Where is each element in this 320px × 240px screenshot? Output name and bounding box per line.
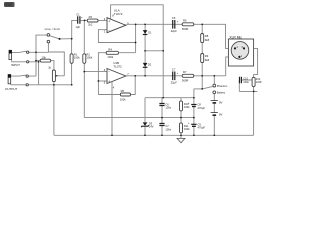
wire C1 left elbow: [72, 20, 77, 38]
wire right riser: [253, 91, 255, 135]
resistor 10k: [40, 56, 51, 63]
svg-text:470µF: 470µF: [198, 126, 206, 130]
wire switch common row: [194, 88, 202, 90]
wire phantom drop: [213, 76, 215, 84]
resistor R6: [182, 18, 194, 31]
op-amp U1B: [104, 61, 130, 89]
svg-text:−: −: [108, 28, 110, 32]
wire R11 column: [180, 118, 182, 136]
wire U1B pin4 stub: [111, 82, 113, 136]
svg-text:Battery: Battery: [217, 91, 226, 95]
svg-text:10k: 10k: [42, 56, 47, 60]
svg-text:+: +: [177, 71, 179, 75]
svg-text:+: +: [108, 79, 110, 83]
svg-text:D1: D1: [148, 31, 152, 35]
wire U1B minus input: [98, 80, 107, 82]
wire R1 column: [71, 39, 73, 85]
svg-text:2k2: 2k2: [88, 22, 93, 26]
wire U1B plus input: [84, 71, 107, 73]
svg-text:ESP: ESP: [6, 3, 12, 7]
wire S1 select chain: [48, 43, 64, 76]
wire R10 column: [180, 98, 182, 118]
svg-text:Phantom: Phantom: [217, 84, 227, 88]
wire input sleeve row: [12, 61, 39, 63]
wire C10 elbow: [239, 80, 252, 91]
svg-text:24V: 24V: [149, 125, 154, 129]
svg-text:OUTPUT: OUTPUT: [5, 87, 18, 91]
svg-text:Line / Instr: Line / Instr: [45, 27, 60, 31]
svg-text:C5: C5: [172, 16, 176, 20]
capacitor C7b: [159, 124, 171, 132]
svg-text:9V: 9V: [219, 100, 223, 104]
svg-text:+: +: [108, 19, 110, 23]
svg-text:TL072: TL072: [114, 12, 123, 16]
input jack: [9, 50, 20, 67]
wire C8b column: [193, 118, 195, 136]
wire clamp row: [145, 50, 163, 52]
wire top supply loop: [111, 5, 164, 98]
svg-text:560R: 560R: [182, 79, 188, 83]
resistor R5: [120, 89, 131, 101]
svg-text:9V: 9V: [219, 112, 223, 116]
wire output sleeve row: [11, 84, 26, 86]
switch S1: [47, 34, 50, 37]
capacitor C10: [240, 77, 250, 84]
wire output tip row: [11, 74, 36, 77]
wire hot output row: [126, 24, 235, 48]
wire V+ rail: [145, 97, 194, 99]
svg-text:100n: 100n: [165, 106, 171, 110]
resistor R4: [106, 47, 135, 58]
svg-text:470µF: 470µF: [198, 106, 206, 110]
wire xlr ground row: [239, 90, 257, 92]
wire input tip row: [12, 51, 49, 52]
wire C7b column: [161, 118, 163, 136]
svg-text:100k: 100k: [184, 127, 190, 131]
svg-text:D2: D2: [148, 63, 152, 67]
capacitor C1: [75, 12, 83, 29]
wire zener column: [144, 98, 146, 136]
svg-text:100k: 100k: [120, 97, 126, 101]
svg-text:100k: 100k: [74, 56, 80, 60]
pot 1k: [48, 66, 58, 82]
wire ground symbol stub: [180, 135, 182, 138]
wire R3 attenuator: [36, 61, 54, 70]
resistor R11: [180, 123, 191, 133]
capacitor C5: [171, 16, 179, 33]
svg-text:100k: 100k: [184, 105, 190, 109]
resistor R3: [87, 15, 98, 26]
svg-text:120R: 120R: [256, 81, 262, 84]
wire sleeve bus: [38, 62, 40, 85]
svg-text:R4: R4: [108, 47, 112, 51]
svg-text:+: +: [177, 19, 179, 23]
XLR connector: [228, 35, 253, 66]
resistor R12: [252, 77, 262, 86]
resistor R8: [201, 34, 210, 43]
wire U1A feedback: [135, 24, 137, 52]
svg-text:22µF: 22µF: [171, 81, 178, 85]
wire phantom lever: [202, 86, 213, 89]
wire pin1 chain: [226, 57, 240, 76]
jack switch contacts: [27, 51, 29, 53]
svg-text:1µF: 1µF: [75, 25, 80, 29]
wire C8a column: [193, 89, 195, 118]
svg-text:100n: 100n: [243, 80, 249, 84]
wire cold output row: [126, 75, 226, 77]
svg-text:INPUT: INPUT: [11, 63, 20, 67]
svg-text:100k: 100k: [107, 55, 113, 59]
wire pot bottom / ground row: [28, 82, 71, 136]
capacitor C9: [188, 121, 205, 130]
zener D3: [141, 122, 153, 129]
wire battery column: [213, 94, 215, 136]
svg-text:R8: R8: [205, 34, 209, 38]
svg-text:560R: 560R: [182, 27, 188, 31]
svg-text:6k8: 6k8: [205, 58, 210, 62]
wire R5 row: [98, 94, 120, 96]
op-amp U1A: [104, 9, 130, 34]
wire S1 lever: [50, 36, 60, 39]
resistor R10: [180, 101, 191, 111]
svg-text:R6: R6: [183, 18, 187, 22]
svg-text:+: +: [81, 16, 83, 20]
svg-text:−: −: [108, 70, 110, 74]
svg-text:TL072: TL072: [113, 65, 122, 69]
resistor R7: [182, 70, 194, 83]
svg-text:C7: C7: [172, 68, 176, 72]
wire bias rail: [84, 117, 194, 119]
battery B1: [211, 100, 223, 104]
wire C6 column: [161, 98, 163, 118]
capacitor C6: [159, 102, 171, 109]
svg-text:R9: R9: [205, 54, 209, 58]
resistor R1: [70, 52, 80, 63]
resistor R9: [201, 54, 210, 63]
wire U1A plus input: [80, 19, 107, 21]
wire pin3 chain: [244, 48, 258, 91]
badge: [4, 2, 15, 7]
wire R2 column: [83, 20, 85, 117]
wire tip bus: [36, 35, 47, 76]
diode D2: [143, 63, 152, 68]
switch phantom battery: [213, 84, 227, 95]
wire clamp column: [144, 24, 146, 76]
diode D1: [143, 30, 152, 34]
wire R8 R9 column: [201, 24, 203, 89]
svg-text:100k: 100k: [86, 56, 92, 60]
ground: [177, 138, 185, 142]
svg-text:R7: R7: [183, 70, 187, 74]
svg-text:22µF: 22µF: [171, 29, 178, 33]
wire bottom rail: [54, 134, 254, 136]
capacitor C7: [171, 68, 179, 85]
svg-text:C1: C1: [76, 12, 80, 16]
output jack: [5, 75, 18, 92]
wire R4 row: [98, 53, 106, 95]
svg-text:R5: R5: [121, 89, 125, 93]
svg-text:R3: R3: [89, 15, 93, 19]
svg-text:100n: 100n: [165, 127, 171, 131]
resistor R2: [83, 52, 93, 63]
battery B2: [211, 112, 223, 116]
svg-text:XLR Mic: XLR Mic: [229, 35, 242, 39]
wire S1 common row: [60, 38, 72, 40]
capacitor C8: [188, 101, 205, 110]
svg-text:6k8: 6k8: [205, 38, 210, 42]
